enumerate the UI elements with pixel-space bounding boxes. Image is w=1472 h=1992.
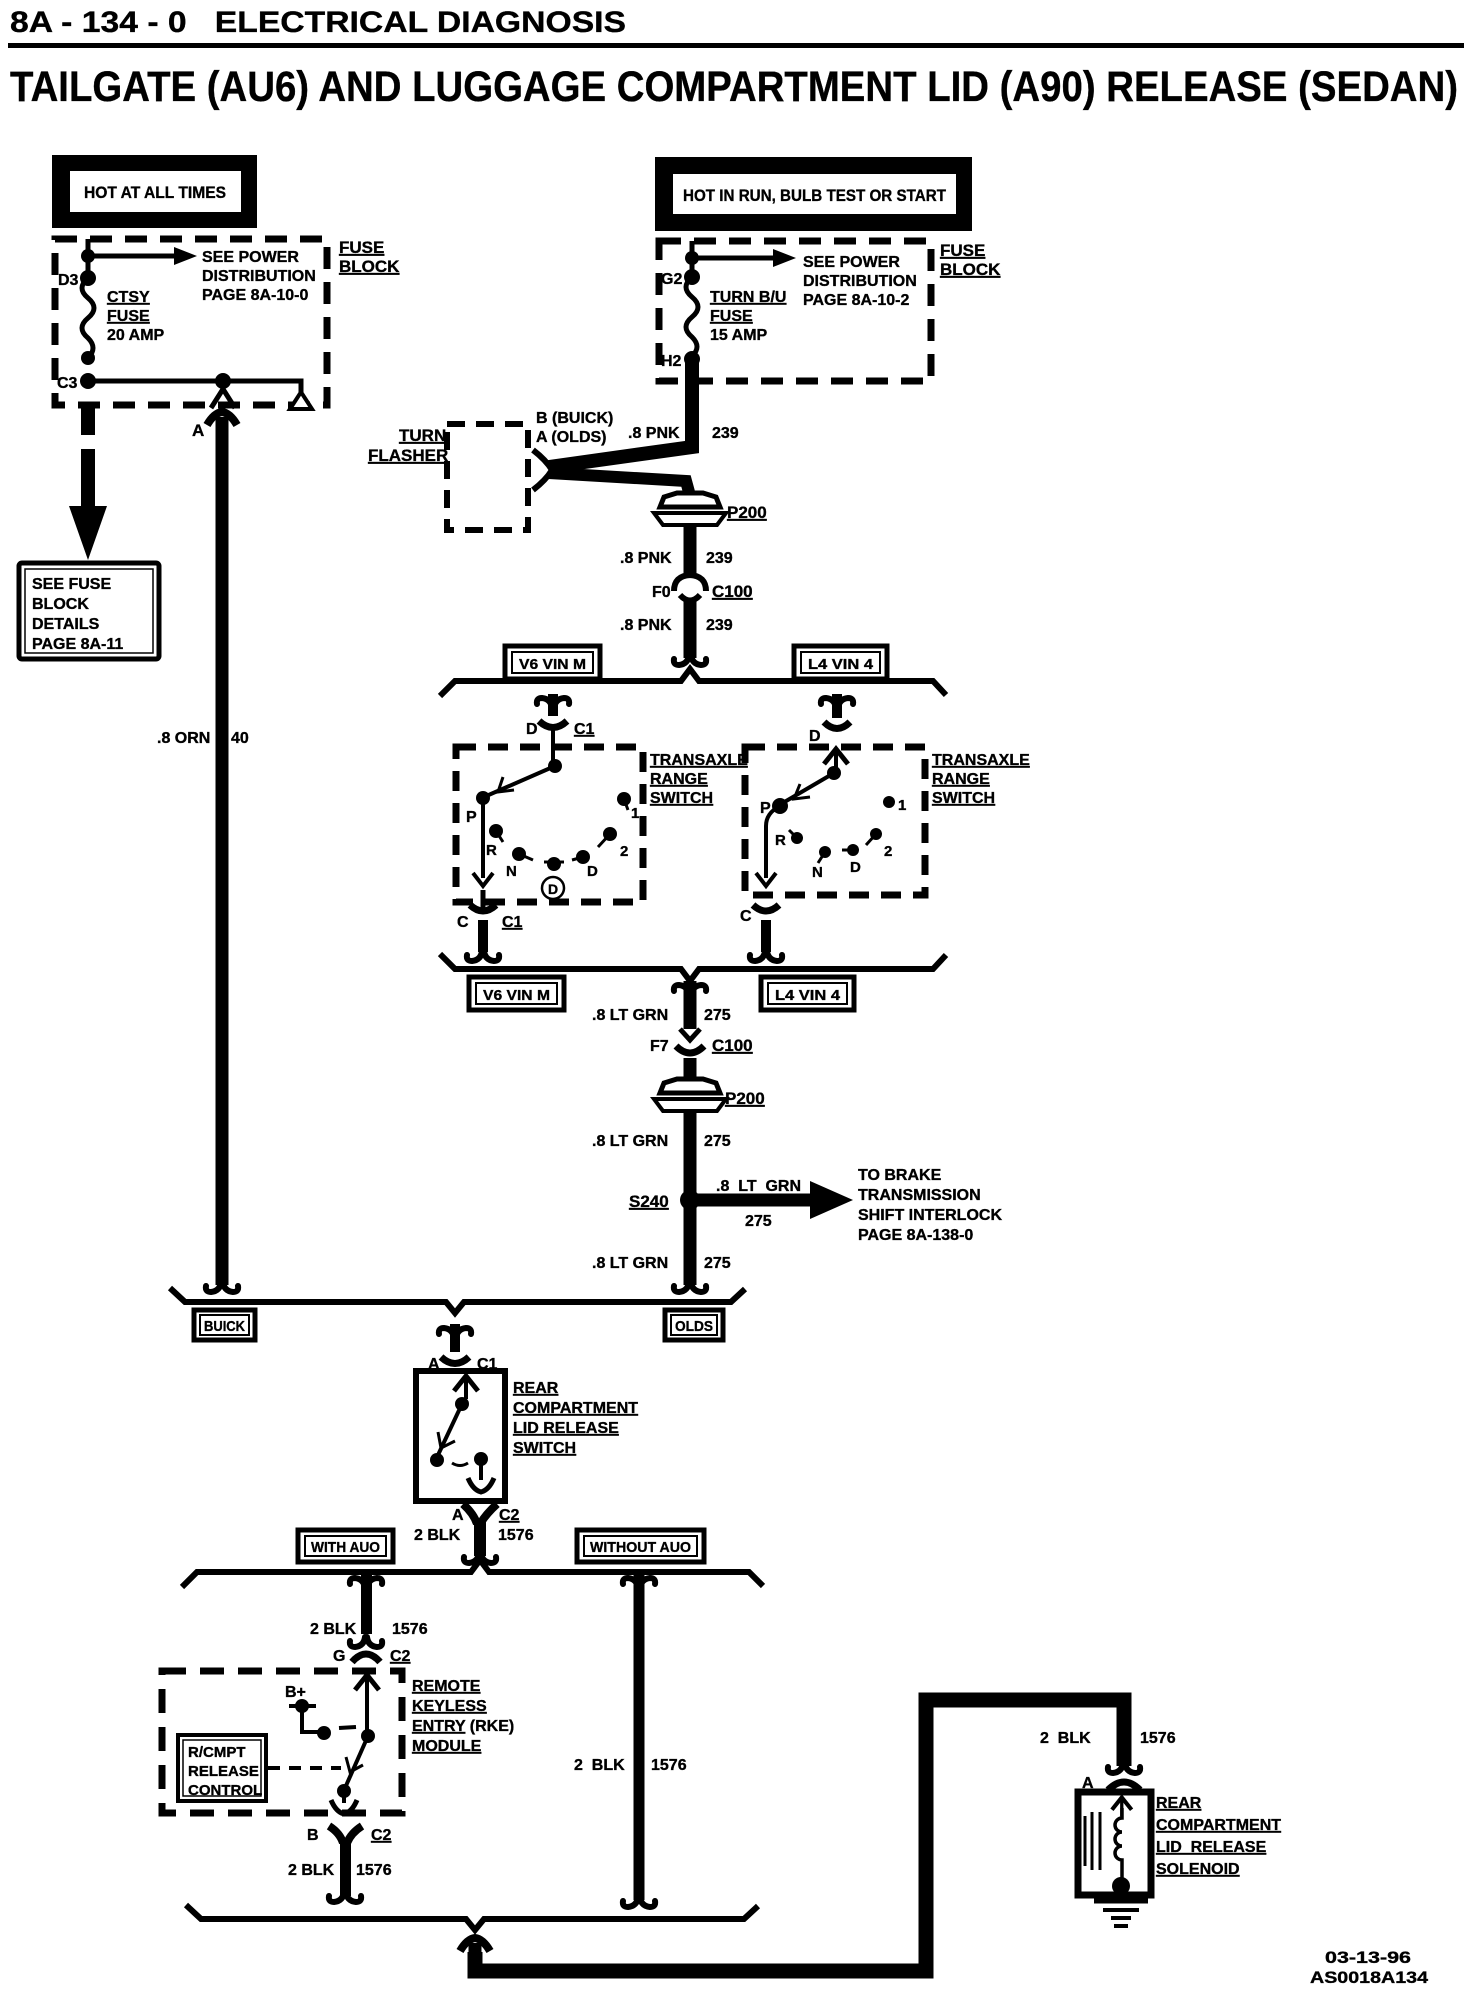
wire from right contact down with arrow <box>468 1459 494 1492</box>
svg-text:F7: F7 <box>650 1038 669 1055</box>
switch pivot dot <box>455 1397 469 1411</box>
svg-text:H2: H2 <box>661 353 682 370</box>
svg-text:A (OLDS): A (OLDS) <box>536 429 607 446</box>
pin D3 dot <box>80 270 96 286</box>
svg-text:.8 LT GRN: .8 LT GRN <box>716 1178 801 1195</box>
contact circled D (left box) <box>542 877 564 899</box>
svg-text:FUSE: FUSE <box>107 308 150 325</box>
switch arm to P with arrowhead (right box) <box>781 773 834 804</box>
svg-text:TO BRAKE: TO BRAKE <box>858 1167 942 1184</box>
svg-text:N: N <box>812 864 823 881</box>
box label WITHOUT AUO <box>577 1530 704 1562</box>
wire label .8 PNK 239 (above P200) <box>628 425 739 442</box>
svg-text:FUSE: FUSE <box>710 308 753 325</box>
node feed dot (right block) <box>685 251 699 265</box>
arrow out of right box <box>756 873 776 886</box>
svg-text:D: D <box>548 881 558 897</box>
wire label .8 LT GRN 275 (first) <box>592 1007 731 1024</box>
svg-text:1: 1 <box>631 805 639 822</box>
svg-text:S240: S240 <box>629 1192 669 1211</box>
svg-text:C: C <box>457 914 469 931</box>
ground symbol <box>1094 1886 1148 1926</box>
svg-text:SEE POWER: SEE POWER <box>202 249 299 266</box>
svg-text:.8 ORN: .8 ORN <box>157 730 210 747</box>
brace bus V6/L4 split (top) <box>440 669 946 696</box>
contact P dot (left box) <box>476 791 490 805</box>
note SEE POWER DISTRIBUTION PAGE 8A-10-0 <box>202 249 316 304</box>
svg-text:BUICK: BUICK <box>204 1318 245 1335</box>
svg-text:F0: F0 <box>652 584 671 601</box>
svg-text:A: A <box>452 1507 464 1524</box>
svg-text:1: 1 <box>898 797 906 814</box>
wire WITHOUT AUO branch <box>623 1574 655 1907</box>
svg-text:275: 275 <box>704 1007 731 1024</box>
svg-text:C1: C1 <box>502 914 523 931</box>
svg-text:.8 PNK: .8 PNK <box>628 425 680 442</box>
svg-text:SWITCH: SWITCH <box>932 790 995 807</box>
pin H2 dot <box>684 351 700 367</box>
svg-text:P: P <box>466 809 477 826</box>
svg-text:PAGE 8A-138-0: PAGE 8A-138-0 <box>858 1227 973 1244</box>
svg-text:CTSY: CTSY <box>107 289 150 306</box>
box SEE FUSE BLOCK DETAILS PAGE 8A-11 <box>19 563 159 659</box>
svg-text:COMPARTMENT: COMPARTMENT <box>1156 1817 1281 1834</box>
wire P down and out (right box) <box>766 806 780 878</box>
svg-text:P200: P200 <box>727 503 767 522</box>
svg-text:SOLENOID: SOLENOID <box>1156 1861 1240 1878</box>
svg-text:MODULE: MODULE <box>412 1738 482 1755</box>
svg-text:.8 LT GRN: .8 LT GRN <box>592 1255 668 1272</box>
connector pin D (right transaxle) <box>821 694 853 729</box>
contact 2 dot with tick (left box) <box>598 827 628 860</box>
wire label .8 PNK 239 (middle) <box>620 550 733 567</box>
arrow out of left box <box>473 873 493 886</box>
svg-text:N: N <box>506 863 517 880</box>
pin G2 dot <box>684 269 700 285</box>
svg-text:KEYLESS: KEYLESS <box>412 1698 487 1715</box>
svg-text:.8 LT GRN: .8 LT GRN <box>592 1007 668 1024</box>
contact P dot (right box) <box>772 798 788 814</box>
connector pin A (solenoid) <box>1108 1763 1140 1790</box>
wire label 2 BLK 1576 (solenoid) <box>1040 1730 1176 1747</box>
arrow into right box <box>824 749 848 772</box>
svg-text:LID RELEASE: LID RELEASE <box>1156 1839 1267 1856</box>
contact N dot with tick (right box) <box>812 846 831 881</box>
svg-text:V6 VIN M: V6 VIN M <box>519 656 586 673</box>
svg-text:PAGE 8A-11: PAGE 8A-11 <box>32 636 123 653</box>
svg-text:RANGE: RANGE <box>932 771 990 788</box>
svg-text:15 AMP: 15 AMP <box>710 327 768 344</box>
box label V6 VIN M (top) <box>505 646 600 679</box>
pin label B (BUICK) A (OLDS) <box>536 410 613 446</box>
wire label .8 PNK 239 (lower) <box>620 617 733 634</box>
connector C1 pin D (left transaxle) <box>537 694 569 766</box>
svg-text:TRANSAXLE: TRANSAXLE <box>650 752 748 769</box>
svg-text:CONTROL: CONTROL <box>188 1782 262 1799</box>
B+ feed dot with bar <box>289 1699 316 1713</box>
junction dot on C3 wire <box>215 373 231 389</box>
pin C3 dot <box>80 373 96 389</box>
connector cavity triangle (right) <box>290 392 312 409</box>
contact gap dash <box>339 1727 356 1728</box>
svg-text:2 BLK: 2 BLK <box>574 1757 625 1774</box>
svg-text:C3: C3 <box>57 375 78 392</box>
svg-text:1576: 1576 <box>498 1527 534 1544</box>
svg-text:D: D <box>526 721 538 738</box>
svg-text:2 BLK: 2 BLK <box>1040 1730 1091 1747</box>
wire WITH AUO branch from brace <box>350 1574 382 1634</box>
svg-text:TURN: TURN <box>399 426 446 445</box>
svg-text:.8 PNK: .8 PNK <box>620 550 672 567</box>
note SEE POWER DISTRIBUTION PAGE 8A-10-2 <box>803 254 917 309</box>
fuse TURN B/U FUSE 15 AMP element <box>686 277 698 356</box>
svg-text:G: G <box>333 1648 345 1665</box>
arrow out of RKE module <box>331 1791 357 1814</box>
svg-text:G2: G2 <box>661 271 682 288</box>
contact 2 dot with tick (right box) <box>866 828 892 860</box>
connector P200 (upper) <box>654 493 726 525</box>
wire between C100 and P200 (lower) <box>684 1058 697 1090</box>
brace bus WITH/WITHOUT AUO split <box>182 1560 763 1587</box>
svg-text:DETAILS: DETAILS <box>32 616 100 633</box>
svg-text:.8 LT GRN: .8 LT GRN <box>592 1133 668 1150</box>
brace bus V6/L4 merge (bottom) <box>440 954 946 981</box>
svg-text:2 BLK: 2 BLK <box>310 1621 357 1638</box>
contact dot (left) <box>430 1453 444 1467</box>
svg-text:C2: C2 <box>499 1507 520 1524</box>
svg-text:FUSE: FUSE <box>339 238 384 257</box>
note TO BRAKE TRANSMISSION SHIFT INTERLOCK PAGE 8A-138-0 <box>858 1167 1002 1244</box>
svg-text:275: 275 <box>704 1255 731 1272</box>
svg-text:TURN B/U: TURN B/U <box>710 289 786 306</box>
svg-text:REAR: REAR <box>513 1380 559 1397</box>
svg-text:R/CMPT: R/CMPT <box>188 1744 246 1761</box>
turn flasher connector fork <box>533 450 552 490</box>
node feed dot <box>81 249 95 263</box>
transaxle range switch dashed box (left) <box>456 747 643 902</box>
wire from top into CTSY fuse <box>86 239 91 278</box>
svg-text:SWITCH: SWITCH <box>650 790 713 807</box>
svg-text:8A - 134 - 0 ELECTRICAL DIAG: 8A - 134 - 0 ELECTRICAL DIAGNOSIS <box>10 6 626 39</box>
rear compartment lid release solenoid box <box>1078 1792 1151 1895</box>
svg-text:1576: 1576 <box>356 1862 392 1879</box>
svg-text:1576: 1576 <box>392 1621 428 1638</box>
svg-text:1576: 1576 <box>1140 1730 1176 1747</box>
wire label .8 ORN 40 <box>157 730 249 747</box>
thick dashed wire down from fuse block <box>69 405 107 560</box>
contact 1 dot (left box) <box>617 792 639 822</box>
svg-text:DISTRIBUTION: DISTRIBUTION <box>803 273 917 290</box>
svg-text:275: 275 <box>704 1133 731 1150</box>
svg-text:P200: P200 <box>725 1089 765 1108</box>
contact D2 dot (left box) <box>544 857 564 871</box>
turn flasher dashed box <box>447 424 528 530</box>
svg-text:REAR: REAR <box>1156 1795 1202 1812</box>
svg-text:239: 239 <box>706 617 733 634</box>
contact D dot with tick (right box) <box>842 844 861 876</box>
wire label 2 BLK 1576 (switch out) <box>414 1527 534 1544</box>
wire label 2 BLK 1576 (RKE in) <box>310 1621 428 1638</box>
fuse block (left) dashed box <box>55 239 327 405</box>
svg-text:20 AMP: 20 AMP <box>107 327 165 344</box>
wire arrow to SEE POWER DISTRIBUTION <box>88 247 197 265</box>
transaxle range switch dashed box (right) <box>745 747 925 895</box>
solenoid ground dot <box>1112 1877 1130 1895</box>
svg-text:RELEASE: RELEASE <box>188 1763 259 1780</box>
wire from top into TURN B/U fuse <box>690 241 695 276</box>
svg-text:C2: C2 <box>390 1648 411 1665</box>
svg-text:C1: C1 <box>574 721 595 738</box>
svg-text:HOT IN RUN, BULB TEST OR START: HOT IN RUN, BULB TEST OR START <box>683 186 947 205</box>
svg-text:D: D <box>850 859 861 876</box>
svg-text:.8 PNK: .8 PNK <box>620 617 672 634</box>
svg-text:AS0018A134: AS0018A134 <box>1310 1968 1429 1987</box>
header rule <box>8 43 1464 48</box>
label TRANSAXLE RANGE SWITCH (left) <box>650 752 748 807</box>
label REAR COMPARTMENT LID RELEASE SOLENOID <box>1156 1795 1281 1878</box>
contact N dot with tick (left box) <box>506 847 533 880</box>
svg-text:L4 VIN 4: L4 VIN 4 <box>775 987 841 1004</box>
svg-text:D: D <box>809 728 821 745</box>
svg-text:LID RELEASE: LID RELEASE <box>513 1420 619 1437</box>
box label L4 VIN 4 (bottom) <box>761 977 854 1010</box>
banner HOT AT ALL TIMES <box>52 155 257 228</box>
rear compartment lid release switch box <box>416 1371 505 1501</box>
svg-text:ENTRY (RKE): ENTRY (RKE) <box>412 1718 514 1735</box>
contact dot (right) <box>474 1452 488 1466</box>
svg-text:B (BUICK): B (BUICK) <box>536 410 613 427</box>
svg-text:TAILGATE (AU6) AND LUGGAGE COM: TAILGATE (AU6) AND LUGGAGE COMPARTMENT L… <box>10 63 1458 111</box>
svg-text:PAGE 8A-10-2: PAGE 8A-10-2 <box>803 292 910 309</box>
svg-text:2 BLK: 2 BLK <box>288 1862 335 1879</box>
label REAR COMPARTMENT LID RELEASE SWITCH <box>513 1380 638 1457</box>
wire below C100 down to V6/L4 brace <box>674 600 706 665</box>
svg-text:B+: B+ <box>285 1684 306 1701</box>
svg-text:C2: C2 <box>371 1827 392 1844</box>
svg-text:BLOCK: BLOCK <box>32 596 89 613</box>
splice S240 dot <box>680 1190 700 1210</box>
fuse block (right) dashed box <box>659 241 931 381</box>
wire arrow to brake transmission shift interlock <box>697 1181 853 1219</box>
svg-text:C: C <box>740 908 752 925</box>
wire from flasher to P200 corner <box>549 473 689 492</box>
wire label 2 BLK 1576 (without AUO) <box>574 1757 687 1774</box>
arrow into RKE module <box>355 1675 379 1698</box>
svg-text:WITH AUO: WITH AUO <box>311 1539 380 1556</box>
wire arrow to SEE POWER DISTRIBUTION (right) <box>692 249 796 267</box>
svg-text:SHIFT INTERLOCK: SHIFT INTERLOCK <box>858 1207 1002 1224</box>
fuse label CTSY FUSE 20 AMP <box>107 289 165 344</box>
svg-text:FLASHER: FLASHER <box>368 446 448 465</box>
wire C3 horizontal run <box>88 381 301 392</box>
wire run to solenoid (thick L path) <box>460 1700 1124 1971</box>
relay switch arm with arrowhead <box>345 1736 368 1788</box>
svg-text:TRANSAXLE: TRANSAXLE <box>932 752 1030 769</box>
wire .8 ORN 40 vertical run with top arrow <box>206 412 238 1292</box>
wire from S240 down to BUICK/OLDS brace <box>674 1205 706 1292</box>
contact R dot with tick (right box) <box>775 830 803 849</box>
svg-text:COMPARTMENT: COMPARTMENT <box>513 1400 638 1417</box>
svg-text:D3: D3 <box>58 272 79 289</box>
mechanical link dash <box>452 1463 468 1466</box>
svg-text:03-13-96: 03-13-96 <box>1325 1948 1411 1967</box>
svg-text:DISTRIBUTION: DISTRIBUTION <box>202 268 316 285</box>
svg-text:R: R <box>775 832 786 849</box>
svg-text:2: 2 <box>620 843 628 860</box>
switch pivot dot (right box) <box>827 766 841 780</box>
svg-text:V6 VIN M: V6 VIN M <box>483 987 550 1004</box>
svg-text:C100: C100 <box>712 582 753 601</box>
svg-text:1576: 1576 <box>651 1757 687 1774</box>
box label L4 VIN 4 (top) <box>794 646 887 679</box>
solenoid core lines <box>1085 1812 1100 1870</box>
connector cavity chevron (left) <box>211 389 235 408</box>
solenoid coil <box>1115 1808 1122 1878</box>
svg-text:275: 275 <box>745 1213 772 1230</box>
svg-text:2 BLK: 2 BLK <box>414 1527 461 1544</box>
brace bus BUICK/OLDS merge <box>170 1288 745 1313</box>
switch pivot dot (left box) <box>548 759 562 773</box>
svg-text:40: 40 <box>231 730 249 747</box>
contact dot (B+ side) <box>317 1726 331 1740</box>
connector C1 pin C (left bottom) <box>467 890 499 961</box>
svg-text:239: 239 <box>712 425 739 442</box>
fuse CTSY FUSE 20 AMP element <box>82 278 94 358</box>
switch arrow to C1 terminal <box>454 1376 478 1399</box>
brace bus bottom merge <box>186 1905 758 1930</box>
svg-text:C100: C100 <box>712 1036 753 1055</box>
wire from P200 down to splice S240 <box>684 1110 697 1200</box>
contact dot (output) <box>337 1784 351 1798</box>
wire label 2 BLK 1576 (RKE out) <box>288 1862 392 1879</box>
svg-text:2: 2 <box>884 843 892 860</box>
wire thick down from H2 to flasher junction <box>549 360 692 467</box>
contact R dot with tick (left box) <box>486 824 503 859</box>
connector C2 pin B <box>329 1826 362 1902</box>
contact 1 dot (right box) <box>883 796 906 814</box>
wire label .8 LT GRN 275 (second) <box>592 1133 731 1150</box>
wire P down and out (left box) <box>481 798 485 878</box>
svg-text:RANGE: RANGE <box>650 771 708 788</box>
dashed control link <box>268 1766 341 1770</box>
remote keyless entry module dashed box <box>162 1671 402 1813</box>
label TRANSAXLE RANGE SWITCH (right) <box>932 752 1030 807</box>
switch arm with arrowhead <box>438 1404 462 1455</box>
fuse label TURN B/U FUSE 15 AMP <box>710 289 786 344</box>
svg-text:OLDS: OLDS <box>675 1318 713 1335</box>
fuse bottom dot <box>81 351 95 365</box>
banner HOT IN RUN, BULB TEST OR START <box>655 157 972 231</box>
wire from B+ L-shaped <box>302 1705 318 1732</box>
connector C2 pin A (below switch) <box>463 1504 497 1563</box>
label REMOTE KEYLESS ENTRY (RKE) MODULE <box>412 1678 514 1755</box>
label TURN FLASHER <box>368 426 448 465</box>
svg-text:FUSE: FUSE <box>940 241 985 260</box>
switch arm to P with arrowhead (left box) <box>484 766 555 797</box>
svg-text:R: R <box>486 842 497 859</box>
box label WITH AUO <box>298 1530 393 1562</box>
wire down to relay contact <box>365 1695 369 1735</box>
connector C100 pin F7 <box>676 1029 704 1053</box>
connector pin C (right bottom) <box>750 905 782 961</box>
connector C100 pin F0 <box>674 575 706 601</box>
svg-text:SWITCH: SWITCH <box>513 1440 576 1457</box>
wire from merge brace down to C100 F7 <box>674 981 706 1029</box>
svg-text:SEE POWER: SEE POWER <box>803 254 900 271</box>
connector C1 pin A (above lid release switch) <box>439 1324 471 1364</box>
svg-text:HOT AT ALL TIMES: HOT AT ALL TIMES <box>84 183 226 202</box>
arrow into solenoid <box>1112 1797 1132 1816</box>
svg-text:L4 VIN 4: L4 VIN 4 <box>808 656 874 673</box>
relay pivot dot <box>361 1729 375 1743</box>
wire label .8 LT GRN 275 (branch) <box>716 1178 801 1230</box>
svg-text:D: D <box>587 863 598 880</box>
svg-text:BLOCK: BLOCK <box>940 260 1001 279</box>
svg-text:BLOCK: BLOCK <box>339 257 400 276</box>
svg-text:WITHOUT AUO: WITHOUT AUO <box>590 1539 691 1556</box>
svg-text:A: A <box>192 421 204 440</box>
connector P200 (lower) <box>654 1079 726 1111</box>
wire label .8 LT GRN 275 (third) <box>592 1255 731 1272</box>
connector C2 pin G <box>350 1637 382 1662</box>
wire between P200 and C100 <box>684 524 697 574</box>
svg-text:239: 239 <box>706 550 733 567</box>
svg-text:PAGE 8A-10-0: PAGE 8A-10-0 <box>202 287 309 304</box>
contact D dot with tick (left box) <box>572 850 598 880</box>
box label BUICK <box>194 1310 255 1340</box>
svg-text:B: B <box>307 1827 319 1844</box>
box label V6 VIN M (bottom) <box>469 977 564 1010</box>
box R/CMPT RELEASE CONTROL <box>178 1735 266 1801</box>
box label OLDS <box>665 1310 723 1340</box>
svg-text:REMOTE: REMOTE <box>412 1678 481 1695</box>
svg-text:TRANSMISSION: TRANSMISSION <box>858 1187 981 1204</box>
svg-text:SEE FUSE: SEE FUSE <box>32 576 111 593</box>
